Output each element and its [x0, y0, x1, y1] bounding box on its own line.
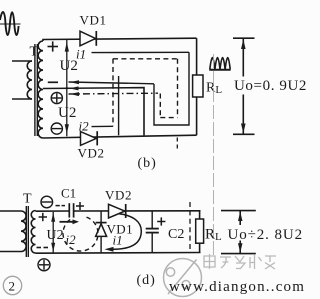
svg-text:VD2: VD2 [78, 146, 105, 161]
U2 reference arrow (d) [52, 212, 54, 253]
polarity circled minus bottom of secondary (b) [51, 123, 62, 134]
polarity minus lower (d) [37, 247, 49, 249]
svg-text:Uo÷2. 8U2: Uo÷2. 8U2 [228, 227, 304, 243]
diode VD1 (b) [80, 31, 96, 46]
node center tap junction [66, 87, 68, 89]
current loop i2 dash-dot return with arrow (b) [69, 92, 159, 95]
AC sine source symbol [0, 12, 19, 35]
fold line artifact [212, 54, 214, 258]
diode VD2 (b) [81, 132, 97, 146]
wire bottom (b): secondary bottom through VD2 to right [43, 135, 197, 138]
polarity + of C2 (d) [157, 217, 165, 225]
svg-text:i2: i2 [66, 232, 77, 247]
output waveform icon (b) [210, 58, 230, 70]
measurement bar bottom (d) [221, 253, 256, 255]
current loop vertical segment (b) [118, 76, 120, 135]
current loop i2 dashed bottom jog (b) [160, 117, 177, 119]
dashed vertical line (d) [189, 202, 191, 253]
measurement bar top (b) [233, 37, 255, 39]
measurement arrow line (b) [242, 38, 244, 76]
polarity + top of secondary (b) [48, 41, 59, 51]
current loop i1 arc with arrow (d) [107, 214, 141, 250]
current loop i1 return with arrow (b) [69, 82, 155, 84]
polarity circled minus top (d) [41, 196, 53, 208]
wire right side (b) [196, 38, 198, 75]
current loop i2 dashed left vertical (b) [112, 59, 114, 127]
transformer core (b) [34, 44, 36, 136]
watermark logo circle [164, 259, 202, 297]
U2 lower reference arrow (b) [66, 88, 68, 136]
transformer T secondary winding (d) [31, 211, 35, 254]
transformer core (d) [25, 206, 27, 257]
sine axis line [0, 23, 21, 25]
transformer T primary winding (b) [27, 61, 32, 99]
wire center tap (b) [43, 88, 144, 136]
svg-text:C2: C2 [168, 227, 184, 242]
current loop i1 line (b) [92, 51, 190, 53]
measurement arrow line (d) [239, 211, 241, 225]
wire primary lead bottom (d) [0, 251, 21, 253]
watermark CJK text 电子发烧友 [204, 254, 276, 269]
wire primary lead top (d) [0, 210, 21, 212]
arrowhead on center tap wire (b) [70, 86, 79, 90]
svg-text:T: T [23, 192, 32, 207]
svg-text:VD1: VD1 [80, 13, 107, 28]
svg-text:RL: RL [205, 227, 222, 244]
polarity minus left of C1 (d) [56, 205, 66, 207]
wire primary lead top (b) [12, 60, 32, 62]
current loop i2 dashed right vertical (b) [177, 59, 179, 118]
svg-text:i2: i2 [79, 119, 90, 134]
wire primary lead bottom (b) [12, 98, 32, 100]
current loop i2 dashed top (b) [113, 58, 178, 60]
current loop i2 dashed inner vertical (b) [159, 94, 161, 118]
svg-text:Uo=0. 9U2: Uo=0. 9U2 [234, 78, 307, 94]
wire bottom (d) [36, 252, 201, 255]
current loop i2 stub line (b) [92, 125, 114, 127]
polarity + upper (d) [39, 213, 47, 221]
svg-text:2: 2 [9, 279, 16, 294]
wire top (b): secondary top to VD1 to node c [43, 38, 197, 41]
svg-text:(d): (d) [137, 273, 156, 288]
measurement bar top (d) [221, 210, 256, 212]
capacitor C2 (d) [151, 211, 153, 229]
diode VD1 vertical (d) [100, 211, 102, 253]
svg-text:U2: U2 [47, 228, 64, 243]
resistor RL (d) [199, 211, 201, 219]
diode VD2 (d) [109, 204, 125, 218]
dashed tail below bottom wire (b) [176, 138, 178, 151]
svg-text:RL: RL [206, 81, 222, 97]
capacitor C1 (d) [69, 203, 73, 217]
svg-text:www.diangon..com: www.diangon..com [169, 279, 305, 295]
svg-text:U2: U2 [58, 105, 76, 121]
svg-text:C1: C1 [61, 186, 76, 201]
polarity + right of C1 (d) [76, 202, 84, 210]
measurement bar bottom (b) [233, 133, 255, 135]
current loop i1 right side (b) [154, 52, 189, 125]
U2 upper reference arrow (b) [66, 39, 68, 88]
transformer T primary winding (d) [21, 211, 26, 252]
watermark circled 2 [3, 276, 21, 294]
transformer T secondary winding (b) [38, 41, 43, 138]
svg-text:i1: i1 [76, 47, 86, 62]
polarity minus above center tap (b) [48, 81, 58, 83]
wire top (d) [36, 210, 70, 212]
polarity circled plus bottom (d) [38, 259, 50, 271]
current loop i2 arrow under C1 (d) [60, 221, 75, 223]
svg-text:(b): (b) [138, 156, 157, 171]
svg-text:i1: i1 [113, 233, 123, 248]
current loop i2 dashed arc (d) [63, 217, 98, 251]
resistor RL (b) [193, 75, 203, 97]
svg-text:VD2: VD2 [105, 188, 132, 203]
polarity circled plus below center tap (b) [51, 92, 62, 103]
